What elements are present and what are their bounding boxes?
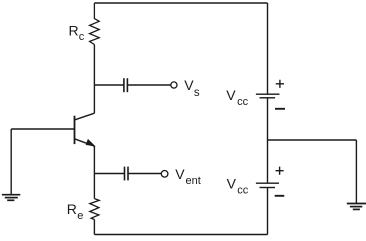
label V2 plus <box>276 167 284 175</box>
ground right line1 <box>347 203 366 205</box>
svg-text:R: R <box>67 201 77 217</box>
label V1 minus <box>275 108 285 110</box>
transistor Q1 emitter lead <box>75 139 95 146</box>
transistor Q1 base bar <box>74 116 76 144</box>
resistor R2 Re <box>90 199 99 220</box>
wire left drop <box>10 129 12 195</box>
svg-text:V: V <box>227 176 237 192</box>
battery V1 top plate <box>256 93 280 95</box>
battery V1 bottom plate <box>260 97 276 99</box>
svg-text:s: s <box>194 87 200 99</box>
label V2 minus <box>275 195 285 197</box>
wire right drop top <box>267 3 269 94</box>
svg-text:ent: ent <box>186 175 201 187</box>
terminal Vent <box>161 171 168 178</box>
ground left line1 <box>2 194 20 196</box>
ground left line2 <box>5 197 18 199</box>
ground right line2 <box>350 206 362 208</box>
svg-text:cc: cc <box>237 185 249 197</box>
wire Vs branch left <box>94 84 124 86</box>
resistor R1 Rc <box>90 3 100 45</box>
wire right drop middle <box>267 98 269 183</box>
svg-text:V: V <box>184 77 194 93</box>
transistor Q1 emitter arrow <box>86 140 94 146</box>
wire right drop bottom <box>267 188 269 235</box>
wire right ground drop <box>355 140 357 203</box>
wire to right ground <box>268 139 357 141</box>
svg-text:e: e <box>77 210 83 222</box>
ground left line3 <box>7 199 14 201</box>
label V1 plus <box>276 80 284 88</box>
wire base <box>11 128 74 130</box>
wire Vs branch right <box>127 84 170 86</box>
terminal Vs <box>171 82 177 88</box>
svg-text:V: V <box>175 166 185 182</box>
ground right line3 <box>353 208 360 210</box>
wire bottom rail <box>94 234 267 236</box>
wire emitter column <box>93 146 95 198</box>
wire collector column <box>93 45 95 114</box>
wire Vent branch right <box>128 173 161 175</box>
svg-text:c: c <box>79 31 85 43</box>
capacitor C2 right plate <box>127 167 129 181</box>
battery V2 bottom plate <box>260 187 276 189</box>
wire top rail <box>94 2 267 4</box>
svg-text:cc: cc <box>237 96 249 108</box>
battery V2 top plate <box>256 182 279 184</box>
capacitor C2 left plate <box>124 167 126 181</box>
wire Re bottom stub <box>93 220 95 235</box>
capacitor C1 right plate <box>126 78 128 92</box>
capacitor C1 left plate <box>123 78 125 92</box>
wire Vent branch left <box>94 173 124 175</box>
transistor Q1 collector lead <box>75 113 95 120</box>
svg-text:R: R <box>69 23 79 39</box>
svg-text:V: V <box>226 87 236 103</box>
